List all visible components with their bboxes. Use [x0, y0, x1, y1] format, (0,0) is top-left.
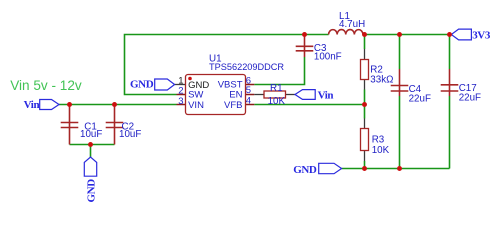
svg-text:VFB: VFB	[224, 100, 242, 111]
svg-text:VIN: VIN	[188, 100, 204, 111]
svg-text:4.7uH: 4.7uH	[339, 19, 365, 30]
svg-text:22uF: 22uF	[459, 92, 481, 103]
svg-text:3V3: 3V3	[472, 29, 491, 41]
svg-text:100nF: 100nF	[314, 52, 342, 63]
svg-text:GND: GND	[293, 164, 317, 176]
svg-text:10K: 10K	[268, 96, 286, 107]
svg-text:10uF: 10uF	[80, 129, 102, 140]
svg-text:Vin 5v - 12v: Vin 5v - 12v	[10, 78, 82, 93]
svg-text:33kΩ: 33kΩ	[370, 75, 393, 86]
svg-text:R1: R1	[270, 83, 283, 94]
svg-text:22uF: 22uF	[409, 93, 431, 104]
svg-text:Vin: Vin	[318, 90, 334, 102]
svg-text:3: 3	[178, 96, 183, 107]
svg-text:Vin: Vin	[24, 99, 40, 111]
svg-text:R3: R3	[372, 134, 385, 145]
svg-text:GND: GND	[85, 179, 97, 203]
svg-text:4: 4	[246, 96, 251, 107]
svg-text:GND: GND	[130, 79, 154, 91]
svg-text:5: 5	[246, 85, 251, 96]
svg-text:10K: 10K	[372, 145, 390, 156]
svg-text:10uF: 10uF	[119, 129, 141, 140]
svg-text:TPS562209DDCR: TPS562209DDCR	[209, 62, 284, 72]
